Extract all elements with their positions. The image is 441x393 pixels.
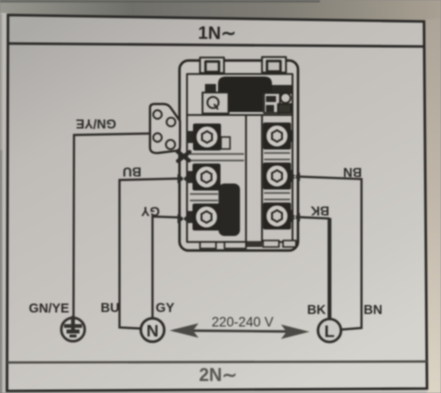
screw terminal R2 [263, 163, 291, 190]
bottom tab 3 [263, 241, 279, 248]
svg-text:BK: BK [307, 302, 326, 317]
svg-text:BN: BN [343, 165, 362, 180]
svg-text:N: N [146, 322, 158, 341]
terminal block body [180, 61, 299, 251]
molded ledge lines left column [190, 153, 244, 155]
bottom tab 4 [283, 241, 296, 248]
screw terminal R3 [263, 203, 291, 230]
center channel [245, 115, 247, 242]
svg-text:BU: BU [101, 300, 120, 315]
svg-text:220-240 V: 220-240 V [212, 315, 274, 330]
wall links left column [187, 131, 194, 143]
line terminal L [318, 319, 341, 342]
wall links right column [290, 130, 294, 142]
svg-text:1N∼: 1N∼ [198, 23, 236, 44]
housing left cell with screw [203, 93, 229, 114]
spade connector BN [290, 172, 300, 181]
svg-text:BN: BN [364, 302, 383, 317]
channel base dark [246, 242, 262, 248]
dark table surface above page [0, 0, 441, 21]
neutral terminal N [141, 318, 164, 341]
housing right cell [272, 85, 292, 94]
dark center housing [229, 92, 263, 112]
bracket clamp screw [178, 152, 190, 162]
voltage arrow 220-240 V [170, 315, 310, 340]
earth bracket [150, 104, 180, 153]
screw terminal L2 [193, 164, 221, 191]
terminal screws [193, 123, 292, 231]
earth electrode symbol PE [61, 316, 84, 341]
clip tab left [200, 58, 224, 74]
clip tab right [262, 57, 286, 73]
bridge cover (dark blob) [218, 77, 272, 95]
terminal block inner wall [187, 74, 293, 242]
spade connector GY [178, 214, 190, 223]
page edge right side [424, 18, 441, 393]
bottom tab 2 [225, 242, 247, 249]
svg-text:2N∼: 2N∼ [199, 365, 237, 385]
svg-text:BK: BK [310, 204, 329, 219]
wire BN [296, 177, 362, 330]
wire BK horizontal [296, 217, 330, 219]
header band line [8, 44, 424, 47]
wire BK vertical (bold) [328, 218, 332, 319]
spade connector BU [178, 174, 190, 183]
spade connector BK [290, 213, 300, 222]
footer band line [7, 362, 427, 363]
svg-text:L: L [324, 322, 334, 341]
svg-text:GN/YE: GN/YE [75, 117, 116, 132]
housing left dark piece [205, 84, 216, 93]
screw terminal L3 [193, 204, 221, 231]
terminal block TB1 [180, 57, 299, 251]
bottom tab 1 [200, 242, 216, 249]
svg-text:BU: BU [123, 165, 142, 180]
screw terminal L1 [193, 124, 230, 151]
wire GY [153, 217, 182, 319]
svg-text:GN/YE: GN/YE [29, 301, 70, 316]
jumper bar between terminals 2-3 left [219, 184, 241, 237]
page edge left side [0, 13, 8, 393]
wire GN/YE [74, 134, 151, 317]
svg-text:GY: GY [156, 300, 175, 315]
wire BU [120, 179, 182, 329]
shelf line under housings [187, 114, 292, 116]
below page bottom [7, 389, 427, 393]
molded ledge lines right column [264, 152, 290, 154]
svg-text:GY: GY [141, 204, 160, 219]
screw terminal R1 [263, 123, 291, 150]
